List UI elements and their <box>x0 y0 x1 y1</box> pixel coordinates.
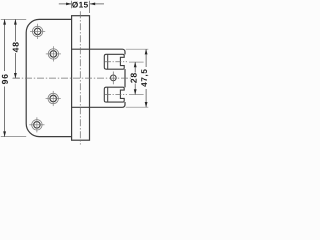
dimension 28 arrows <box>134 62 137 67</box>
dimension 47.5 line <box>145 49 147 107</box>
hinge leaf plate outline <box>26 19 71 136</box>
top stud outline <box>104 54 124 69</box>
dimension 28 text <box>131 73 137 83</box>
frame part profile bottom edge and corner <box>90 102 126 107</box>
bottom stud outline <box>104 87 124 102</box>
main horizontal centerline <box>13 77 131 79</box>
screw hole 1 <box>30 24 45 39</box>
knuckle vertical centerline <box>79 11 81 144</box>
dimension 47.5 extension top <box>126 48 149 50</box>
dimension O15 line left w/ arrow <box>59 3 72 5</box>
dimension 47.5 extension bottom <box>126 106 149 108</box>
pin circle vertical tick <box>112 72 114 85</box>
dimension 28 extension bottom <box>129 94 144 96</box>
dimension 47.5 text <box>141 69 148 86</box>
centerline tick at 48 dim <box>13 77 20 79</box>
top stud collar line <box>107 54 109 69</box>
bottom stud centerline <box>105 94 127 96</box>
screw hole 2 <box>46 46 61 61</box>
dimension O15 text <box>72 2 88 8</box>
frame part profile outline top edge and corner <box>90 49 126 54</box>
frame part profile right edge mid segment <box>124 69 126 87</box>
hinge knuckle front view <box>72 16 90 141</box>
dimension 96 arrows <box>3 19 6 24</box>
top stud centerline <box>105 61 127 63</box>
dimension 96 line <box>4 19 6 136</box>
locating pin circle <box>110 75 116 81</box>
dimension 47.5 arrows <box>145 49 148 54</box>
extension line plate bottom <box>1 136 26 138</box>
screw hole 4 <box>29 117 44 132</box>
dimension 96 text <box>2 74 8 84</box>
bottom stud collar line <box>107 87 109 102</box>
knuckle ring division bottom <box>72 106 90 108</box>
dimension 28 extension top <box>129 61 144 63</box>
knuckle ring division top <box>72 48 90 50</box>
extension line plate top <box>1 18 26 20</box>
dimension 28 line <box>134 62 136 94</box>
dimension 48 line <box>14 19 16 78</box>
dimension 48 arrows <box>14 19 17 24</box>
dimension O15 ticks <box>70 1 72 9</box>
screw hole 3 <box>46 91 61 106</box>
dimension 48 text <box>13 42 19 52</box>
dimension O15 line right w/ arrow <box>90 3 104 5</box>
